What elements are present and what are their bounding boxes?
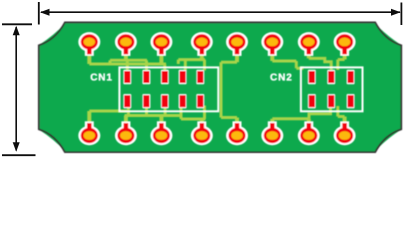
wire T3 stem: [159, 50, 163, 64]
wire T2 stem: [124, 50, 128, 60]
wire T6 to CN2 corner: [296, 67, 303, 70]
wire B1 jog right: [89, 110, 128, 113]
pad P15 bottom: [298, 121, 320, 145]
wire step at x110: [109, 60, 112, 64]
wire T7 staircase: [309, 58, 331, 70]
wire T7 stem: [307, 50, 311, 58]
wire drop to CN1 pin2: [145, 60, 148, 70]
dimension width right tick: [400, 3, 402, 26]
wire B8 stem: [343, 117, 347, 127]
wire T8 drop: [336, 60, 339, 71]
wire step down at x128: [127, 111, 130, 116]
wire T1 stem: [87, 50, 91, 64]
dimension height bottom tick: [2, 154, 36, 156]
dimension width left arrowhead: [40, 9, 50, 16]
dimension width line: [41, 11, 400, 13]
wire T6 drop: [295, 61, 298, 68]
connector CN2 pins top row: [308, 70, 355, 84]
wire B6 stem: [270, 119, 274, 126]
wire B1 stem: [87, 111, 91, 126]
connector CN1 outline: [119, 67, 218, 111]
wire drop to CN1 pin3: [163, 64, 166, 71]
wire B5 jog left: [221, 116, 237, 119]
pad P7 top: [298, 32, 320, 56]
pad P10 bottom: [115, 121, 137, 145]
pad P14 bottom: [261, 121, 283, 145]
wire bottom level horizontal: [125, 114, 182, 117]
wire T8 stem: [343, 50, 347, 60]
wire B5 stem: [235, 118, 239, 127]
dimension height bottom arrowhead: [13, 142, 20, 152]
wire upper horizontal C1-C2: [110, 59, 147, 62]
wire drop to CN1 pin5: [203, 60, 206, 71]
wire rise to CN1 pin7: [145, 106, 148, 116]
wire B6 jog right: [272, 117, 309, 120]
wire rise to CN1 pin10: [203, 106, 206, 120]
wire B4 stem: [200, 119, 204, 126]
wire T5 stem: [235, 50, 239, 62]
wire B8 rise: [336, 106, 339, 117]
connector CN1 pins bottom row: [123, 94, 204, 108]
pad P16 bottom: [334, 121, 356, 145]
connector CN2 outline: [301, 67, 363, 111]
PCB board outline: [39, 22, 402, 152]
wire lower horizontal bus left: [89, 63, 166, 66]
connector CN2 pins bottom row: [308, 94, 355, 108]
wire B6-B7 staircase to CN2: [309, 106, 331, 119]
dimension height line: [15, 27, 17, 151]
wire T8 jog left: [338, 58, 345, 61]
wire B8 jog left: [338, 115, 345, 118]
pad P9 bottom: [78, 121, 100, 145]
PCB board copper fill: [40, 23, 401, 151]
wire rise to CN1 pin6: [127, 106, 130, 112]
pad P13 bottom: [226, 121, 248, 145]
pad P5 top: [226, 32, 248, 56]
wire bottom level C horizontal: [181, 118, 206, 121]
svg-text:CN2: CN2: [270, 72, 293, 83]
pad P4 top: [191, 32, 213, 56]
dimension width right arrowhead: [391, 9, 401, 16]
wire vertical bus between CN1 and CN2: [220, 62, 223, 117]
pad P12 bottom: [191, 121, 213, 145]
dimension height top arrowhead: [13, 26, 20, 36]
dimension width left tick: [38, 2, 40, 25]
wire T6 jog right: [272, 60, 296, 63]
pad P1 top: [78, 32, 100, 56]
wire upper horizontal C4-C5: [178, 58, 205, 61]
connector CN1 pins top row: [123, 70, 204, 84]
wire step at x178: [177, 60, 180, 64]
wire T6 stem: [270, 50, 274, 61]
wire drop to CN1 pin1: [126, 60, 129, 70]
wire drop to CN1 pin4: [184, 60, 187, 71]
wire B3 stem: [159, 116, 163, 127]
wire B7 stem: [307, 119, 311, 126]
wire B2 stem: [124, 116, 128, 127]
wire rise to CN1 pin9 and step: [180, 106, 183, 120]
wire T4 stem: [200, 50, 204, 60]
pad P2 top: [115, 32, 137, 56]
pad P3 top: [150, 32, 172, 56]
svg-text:CN1: CN1: [90, 72, 113, 83]
pad P11 bottom: [150, 121, 172, 145]
wire rise to CN1 pin8: [164, 106, 167, 116]
dimension height top tick: [2, 23, 32, 25]
wire T5 jog left: [221, 61, 237, 64]
pad P8 top: [334, 32, 356, 56]
pad P6 top: [261, 32, 283, 56]
